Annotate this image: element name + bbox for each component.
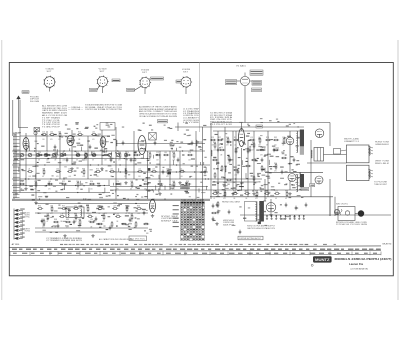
wire vertical run 13 (147, 151, 149, 199)
capacitor C45 (130, 158, 133, 163)
tube V15 (HV rectifier) (334, 209, 339, 214)
pilot lamp PL1 cluster (335, 207, 364, 221)
wire bus: IF plate branch (116, 143, 205, 145)
tube V7 (2nd IF amp) envelope (100, 137, 106, 147)
resistor-capacitor group RC74 (65, 219, 71, 229)
sound section resistor RS3 (214, 172, 216, 179)
svg-text:R36: R36 (274, 163, 277, 165)
svg-text:V5 6AL5: V5 6AL5 (236, 65, 246, 68)
resistor-capacitor group RC46 (97, 205, 103, 215)
sound section resistor RS8 (226, 179, 232, 181)
ground symbol 14 (34, 201, 37, 204)
resistor-capacitor group RC76 (89, 219, 95, 229)
wire vertical run 28 (289, 180, 291, 190)
label box - V5 plate callout (250, 70, 263, 75)
sound section resistor RS19 (274, 163, 277, 173)
wire bus: heater line A (12, 185, 110, 187)
tube socket V3 (6CB6 1st IF) (139, 70, 151, 89)
svg-text:R44: R44 (226, 137, 229, 139)
wire vertical run 5 (46, 131, 48, 151)
sound section resistor RS2 (212, 159, 218, 161)
resistor-capacitor group RC27 (166, 168, 169, 178)
svg-text:AT 880: AT 880 (12, 243, 20, 246)
wire V2 plate lead (102, 87, 104, 94)
wire vertical run 16 (179, 151, 181, 179)
capacitor C55 (261, 158, 264, 163)
transformer T6 core (vert output trans) (300, 130, 304, 147)
wire shield tie V2 (97, 86, 100, 91)
wire vertical run 1 (13, 133, 15, 199)
svg-text:T5 3RD PIX IF: T5 3RD PIX IF (42, 127, 61, 129)
resistor-capacitor group RC17 (27, 168, 33, 178)
wire vertical run 3 (25, 133, 27, 186)
svg-text:470: 470 (102, 221, 105, 223)
resistor-capacitor group RC40 (185, 181, 191, 191)
resistor-capacitor group RC65 (273, 137, 279, 147)
bypass capacitor row C71 (271, 215, 273, 220)
ground symbol 6 (158, 192, 161, 195)
terminal strip contact 5 (15, 225, 25, 228)
terminal strip contact 8 (15, 237, 25, 240)
label: CRT socket (374, 182, 388, 186)
sound takeoff box (149, 133, 157, 141)
tube V16 (horiz osc) (266, 203, 276, 213)
label box - 300 ohm input (22, 91, 29, 94)
svg-text:R62: R62 (285, 190, 288, 192)
tube socket V1 (6BQ7A RF amp) (44, 68, 56, 89)
resistor-capacitor group RC5 (75, 152, 81, 162)
terminal strip bracket (22, 210, 24, 239)
bypass capacitor row C76 (294, 215, 296, 220)
svg-text:CAUTION HIGH VOLTAGE 12KV: CAUTION HIGH VOLTAGE 12KV (247, 227, 276, 230)
resistor-capacitor group RC3 (54, 152, 57, 162)
yoke horizontal winding (369, 147, 370, 156)
resistor-capacitor group RC66 (282, 137, 285, 147)
capacitor C61 (239, 230, 242, 235)
flyback mounting foot (258, 222, 261, 225)
ground symbol 13 (151, 214, 154, 217)
terminal strip labels B (25, 229, 31, 233)
resistor-capacitor group RC30 (34, 181, 37, 191)
wire bus: tuner AGC branch (14, 154, 110, 156)
svg-text:C37: C37 (223, 190, 226, 192)
wire bus: chassis ground run (12, 198, 210, 200)
notes block: resistor tolerances (42, 105, 68, 117)
svg-text:R74: R74 (96, 168, 99, 170)
svg-text:.01: .01 (158, 188, 160, 190)
wire bus: audio section mid (35, 212, 148, 214)
svg-text:V1 6BQ7A: V1 6BQ7A (46, 68, 55, 71)
tube V14 (damper) (315, 176, 323, 184)
wire video takeoff stub (177, 123, 179, 132)
svg-text:SKT: SKT (47, 71, 52, 73)
parts footnote left (46, 238, 83, 242)
resistor-capacitor group RC72 (42, 219, 46, 229)
parts footnote mid (99, 238, 134, 241)
wire vertical run 27 (289, 145, 291, 172)
svg-text:V3 6CB6: V3 6CB6 (141, 70, 149, 72)
terminal strip contact 1 (15, 209, 25, 212)
tube V1b (tuner triode) envelope (23, 138, 29, 150)
resistor-capacitor group RC6 (84, 152, 87, 162)
bypass capacitor row C73 (280, 215, 282, 220)
page edge mark (383, 244, 393, 246)
capacitor C57 (281, 170, 284, 175)
yoke vertical winding (369, 170, 370, 179)
label box - metal shield note (127, 88, 135, 91)
capacitor C60 (228, 210, 231, 215)
sound section labels (scan texture) (213, 134, 259, 196)
resistor-capacitor group RC39 (172, 181, 175, 191)
svg-text:.005: .005 (62, 159, 65, 161)
note above V5 (236, 65, 246, 68)
svg-text:.005: .005 (234, 174, 237, 176)
wire bus: tuner B+ (20, 135, 110, 137)
sound IF labels (scan texture) (239, 118, 299, 127)
ground symbol 5 (124, 181, 127, 184)
label box - shield over V4 (176, 80, 182, 83)
capacitor C53 (237, 170, 240, 175)
resistor-capacitor group RC69 (58, 131, 62, 141)
resistor-capacitor group RC64 (265, 137, 271, 147)
svg-text:470: 470 (116, 188, 119, 190)
svg-text:R14: R14 (78, 131, 81, 133)
capacitor C40 (54, 145, 57, 150)
capacitor C47 (162, 170, 165, 175)
wire antenna lead right (19, 99, 29, 127)
svg-text:SW1 ON VOL: SW1 ON VOL (336, 204, 348, 206)
svg-text:C16: C16 (42, 131, 45, 133)
svg-text:HORIZ OSC 6SN7: HORIZ OSC 6SN7 (222, 202, 240, 204)
svg-text:V2 6U8: V2 6U8 (99, 69, 107, 71)
wire bus: chassis ground run second conductor (12, 199, 210, 201)
resistor group RH2 (211, 212, 217, 214)
svg-text:VERT: VERT (25, 229, 31, 231)
yoke hatch bottom (368, 169, 373, 177)
audio capacitor CA2 (57, 224, 60, 229)
svg-text:L74: L74 (116, 181, 119, 183)
resistor-capacitor group RC4 (61, 152, 67, 162)
svg-text:TUBE SOCKET: TUBE SOCKET (374, 184, 388, 186)
resistor-capacitor group RC14 (163, 152, 169, 162)
svg-text:L18: L18 (148, 152, 151, 154)
speaker transformer T9 box (314, 148, 324, 162)
wire bus: boost feed (265, 171, 323, 173)
voltage chart title (181, 199, 205, 202)
svg-text:L64: L64 (110, 168, 113, 170)
ground symbol 2 (45, 153, 48, 156)
resistor-capacitor group RC49 (136, 205, 142, 215)
wire bus: heater branch B2 (110, 186, 208, 188)
tuner module box (100, 123, 115, 131)
svg-text:R95: R95 (38, 205, 41, 207)
coil L17 (311, 150, 312, 158)
svg-text:.01: .01 (164, 159, 166, 161)
sound section resistor RS1 (213, 142, 216, 152)
svg-text:68: 68 (285, 198, 287, 200)
resistor-capacitor group RC21 (82, 168, 85, 178)
sound section resistor RS12 (245, 165, 251, 167)
svg-text:470: 470 (172, 188, 175, 190)
audio section resistor group RA7 (130, 213, 133, 223)
svg-text:470: 470 (56, 176, 59, 178)
ground symbol 12 (269, 213, 272, 216)
audio output transformer T10 box (66, 207, 84, 218)
label box - 2ND ANODE (256, 125, 263, 128)
svg-text:V4 6CB6: V4 6CB6 (182, 69, 190, 71)
parts strip text rows (12, 249, 381, 255)
svg-text:.01: .01 (152, 176, 154, 178)
resistor-capacitor group RC7 (91, 152, 97, 162)
svg-text:SKT: SKT (100, 71, 105, 73)
bypass capacitor row C74 (284, 215, 286, 220)
svg-text:68: 68 (265, 198, 267, 200)
svg-text:L68: L68 (130, 213, 133, 215)
wire V3 plate lead (144, 88, 146, 95)
resistor-capacitor group RC55 (264, 190, 270, 200)
svg-text:C46: C46 (158, 181, 161, 183)
T6 core lower half (300, 147, 304, 155)
wire bus: AGC line (12, 150, 205, 152)
label: yoke vert (375, 161, 390, 165)
flyback primary winding L8 (256, 202, 257, 221)
more value labels (scan texture) (30, 134, 301, 233)
svg-text:L13: L13 (250, 137, 253, 139)
resistor-capacitor group RC38 (157, 181, 163, 191)
terminal strip bus (13, 209, 15, 240)
resistor-capacitor group RC51 (223, 190, 227, 200)
audio capacitor CA6 (129, 218, 132, 223)
capacitor C52 (229, 158, 232, 163)
wire vertical run 24 (264, 179, 266, 201)
svg-text:OF EACH STAGE IN TURN AS SHOWN: OF EACH STAGE IN TURN AS SHOWN (139, 115, 178, 118)
label width coil (344, 138, 360, 143)
svg-text:L34: L34 (90, 219, 93, 221)
svg-text:L45: L45 (144, 181, 147, 183)
svg-text:R22: R22 (62, 205, 65, 207)
svg-text:C88: C88 (42, 168, 45, 170)
resistor-capacitor group RC59 (217, 137, 223, 147)
svg-text:R46: R46 (213, 142, 216, 144)
audio capacitor CA1 (41, 219, 44, 224)
tube socket V4 (6CB6 2nd IF) (180, 69, 192, 88)
svg-text:.005: .005 (213, 149, 216, 151)
balun matching box (34, 128, 40, 132)
audio capacitor CA4 (95, 217, 98, 222)
svg-text:R90: R90 (82, 168, 85, 170)
terminal strip contact 7 (15, 233, 25, 236)
peaking coil slug L11 (181, 184, 184, 187)
capacitor C50 (204, 170, 207, 175)
wire boost to AC run (329, 197, 331, 216)
antenna note (30, 97, 40, 103)
svg-text:470: 470 (50, 139, 53, 141)
ground symbol 1 (24, 187, 27, 190)
wire vertical run 25 (270, 199, 272, 211)
resistor-capacitor group RC24 (124, 168, 127, 178)
resistor-capacitor group RC63 (258, 137, 262, 147)
wire vertical run 17 (195, 131, 197, 199)
wire junction dots (19, 150, 275, 200)
IF transformer labels row (scan texture) (65, 122, 207, 131)
svg-text:Lauren Fia: Lauren Fia (349, 262, 364, 266)
resistor-capacitor group RC56 (274, 190, 280, 200)
resistor-capacitor group RC42 (50, 205, 53, 215)
flyback cage outline (244, 202, 257, 222)
audio capacitor CA7 (143, 211, 146, 216)
label box - shield over V3 (151, 77, 164, 80)
wire T9 to yoke (324, 154, 347, 156)
audio section resistor group RA3 (74, 213, 77, 223)
svg-text:C90: C90 (76, 181, 79, 183)
audio section resistor group RA4 (87, 213, 93, 223)
wire V1 cathode lead (49, 87, 51, 91)
svg-text:LINEARITY L5: LINEARITY L5 (344, 140, 359, 143)
width coil callout box (334, 149, 341, 155)
resistor-capacitor group RC22 (95, 168, 101, 178)
resistor-capacitor group RC73 (53, 219, 59, 229)
wire bus: sync line (213, 130, 300, 132)
svg-text:L10: L10 (138, 168, 141, 170)
capacitor C48 (177, 158, 180, 163)
svg-text:68: 68 (76, 159, 78, 161)
svg-text:470: 470 (92, 139, 95, 141)
resistor group RH1 (217, 201, 219, 208)
sound section resistor RS4 (219, 147, 225, 157)
svg-text:220: 220 (186, 188, 189, 190)
svg-text:HORIZ: HORIZ (25, 231, 31, 233)
transformer T7 core (power trans) (300, 174, 304, 187)
resistor-capacitor group RC34 (89, 181, 95, 191)
capacitor C46 (154, 141, 157, 146)
tube V5 (6AL5 detector) symbol (237, 73, 254, 90)
sound section resistor RS15 (253, 175, 255, 182)
resistor-capacitor group RC37 (143, 181, 149, 191)
svg-text:68: 68 (42, 176, 44, 178)
capacitor C59 (216, 203, 219, 208)
svg-text:68: 68 (266, 144, 268, 146)
resistor-capacitor group RC15 (172, 152, 175, 162)
parts list block left (42, 117, 61, 129)
resistor-capacitor group RC2 (45, 152, 51, 162)
svg-text:R89: R89 (255, 190, 258, 192)
svg-text:MUNTZ: MUNTZ (383, 244, 393, 246)
svg-text:68: 68 (92, 159, 94, 161)
wire bus: heater line B (110, 189, 302, 191)
svg-text:CONTROLS AT NORMAL PICTURE SET: CONTROLS AT NORMAL PICTURE SETTING (85, 108, 122, 111)
wire pointer to yoke (341, 150, 347, 151)
label: yoke horiz (375, 142, 390, 146)
svg-text:470: 470 (252, 149, 255, 151)
svg-text:L34: L34 (92, 131, 95, 133)
wire vertical run 7 (71, 130, 73, 165)
audio section resistor group RB1 (97, 223, 103, 225)
wire bus: video output line (212, 122, 330, 124)
resistor-capacitor group RC70 (77, 131, 83, 141)
resistor-capacitor group RC1 (37, 152, 43, 162)
svg-text:R25: R25 (211, 137, 214, 139)
svg-text:.005: .005 (68, 176, 71, 178)
wire bus: audio section top (35, 203, 148, 205)
resistor-capacitor group RC12 (148, 152, 151, 162)
audio section resistor group RA5 (102, 213, 105, 223)
ground symbol 11 (215, 222, 218, 225)
resistor-capacitor group RC28 (179, 168, 185, 178)
notes under flyback (247, 225, 276, 230)
resistor-capacitor group RC16 (187, 152, 193, 162)
resistor-capacitor group RC18 (42, 168, 45, 178)
annotation row above parts strip (60, 244, 336, 245)
wire V4 plate lead (185, 87, 187, 94)
wire bus: screen line (110, 171, 208, 173)
svg-text:R94: R94 (90, 181, 93, 183)
wire vertical run 22 (241, 123, 243, 132)
sound section resistor RS6 (226, 141, 232, 143)
antenna arrow (16, 96, 20, 100)
svg-text:C2 TRIMMER 3-30 MMF SEE NOTE: C2 TRIMMER 3-30 MMF SEE NOTE (46, 240, 83, 242)
resistor-capacitor group RC60 (226, 137, 230, 147)
wire vertical run 26 (289, 131, 291, 137)
resistor-capacitor group RC9 (118, 152, 122, 162)
bypass capacitor row C72 (275, 215, 277, 220)
wire shield tie V3 (134, 86, 142, 91)
capacitor C64 (305, 203, 308, 208)
resistor-capacitor group RC68 (49, 131, 55, 141)
wire vertical run 32 (334, 197, 336, 216)
tube V6 (1st IF amp) envelope (67, 136, 74, 146)
capacitor C56 (273, 148, 276, 153)
svg-text:C60: C60 (50, 131, 53, 133)
wire stubs (19, 145, 290, 192)
wire vertical run 8 (87, 136, 89, 179)
sound section resistor RS14 (251, 159, 257, 161)
capacitor C54 (249, 148, 252, 153)
wire vertical run horiz section (267, 131, 269, 197)
tube voltage chart (173, 202, 205, 241)
wire bus: B+ 260V line (12, 178, 262, 180)
svg-text:L62: L62 (88, 213, 91, 215)
label box - test point TP9 (158, 120, 168, 123)
svg-text:L78: L78 (60, 213, 63, 215)
yoke hatch top (368, 146, 373, 154)
svg-text:C45: C45 (46, 213, 49, 215)
ground symbol 9 (252, 192, 255, 195)
wire antenna lead left (12, 100, 14, 136)
wire vertical run 21 (232, 131, 234, 190)
capacitor C41 (66, 158, 69, 163)
label interlock (336, 221, 368, 226)
svg-text:68: 68 (130, 188, 132, 190)
resistor-capacitor group RC19 (55, 168, 61, 178)
component value labels (illegible scan texture) (14, 132, 303, 233)
wire vertical run 31 (329, 179, 331, 216)
label box - sync takeoff (181, 185, 190, 189)
sound section resistor RS11 (247, 147, 249, 154)
resistor-capacitor group RC48 (125, 205, 128, 215)
ground symbol 16 (91, 234, 94, 237)
audio capacitor CA5 (109, 226, 112, 231)
wire bus: boost line (210, 196, 333, 198)
parts strip cell dividers (10, 252, 381, 256)
resistor-capacitor group RC35 (115, 181, 121, 191)
capacitor C42 (89, 145, 92, 150)
parts list block right (210, 112, 233, 126)
svg-text:C60: C60 (56, 168, 59, 170)
svg-text:220: 220 (124, 176, 127, 178)
svg-text:C13: C13 (188, 152, 191, 154)
boxed note - voltages (129, 236, 147, 241)
svg-text:R57: R57 (218, 137, 221, 139)
